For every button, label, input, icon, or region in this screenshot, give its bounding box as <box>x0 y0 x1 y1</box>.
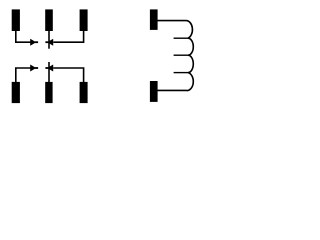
terminal 2 (top contact, middle) <box>45 9 53 31</box>
contact arrow (left-pointing, top) <box>45 39 53 46</box>
relay coil L1 (four loops) <box>157 21 193 91</box>
contact arrow (right-pointing, bottom) <box>30 65 38 72</box>
terminal 6 (bottom contact, right) <box>80 82 88 103</box>
terminal 1 (top contact, left) <box>12 9 20 31</box>
wire from terminal 6 up and left <box>53 68 83 82</box>
coil loop tail 2 <box>174 54 188 56</box>
coil loop tail 3 <box>174 72 188 74</box>
terminal 3 (top contact, right) <box>80 9 88 31</box>
coil loop tail 1 <box>174 37 188 39</box>
wire from terminal 2 down <box>48 31 50 49</box>
wire from terminal 1 down and right <box>16 31 31 43</box>
coil terminal (bottom) <box>150 81 158 102</box>
wire from terminal 5 up <box>48 62 50 82</box>
contact arrow (right-pointing, top) <box>30 39 38 46</box>
wire from terminal 4 up and right <box>16 68 31 82</box>
contact arrow (left-pointing, bottom) <box>45 65 53 72</box>
terminal 5 (bottom contact, middle) <box>45 82 52 103</box>
terminal 4 (bottom contact, left) <box>12 82 20 103</box>
wire from terminal 3 down and left <box>53 31 83 43</box>
coil terminal (top) <box>150 9 158 30</box>
